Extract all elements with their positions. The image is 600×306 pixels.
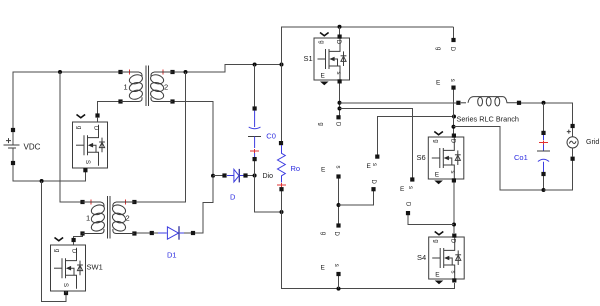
svg-text:D: D	[449, 47, 455, 52]
wire bridge left column top	[282, 27, 454, 65]
capacitor C0	[248, 106, 276, 161]
svg-text:D: D	[335, 122, 341, 127]
node mid-leg midpoint junction	[337, 203, 341, 207]
wire RLC feed line	[340, 102, 459, 104]
svg-text:C0: C0	[266, 132, 276, 141]
transformer T2	[80, 196, 136, 239]
wire Co1 bottom lead to return	[543, 174, 545, 190]
mosfet M1	[73, 113, 108, 172]
node T1 secondary top junction	[184, 70, 188, 74]
node top-left of bridge column	[280, 63, 284, 67]
wire S2 source to midpoint node	[338, 177, 340, 226]
voltage source VDC	[4, 128, 41, 165]
mosfet S4	[417, 232, 464, 285]
inductor Series RLC Branch	[456, 97, 521, 124]
node Ro bottom junction	[280, 210, 284, 214]
svg-text:D: D	[333, 232, 339, 237]
wire Ro node down to bottom bus	[282, 212, 455, 289]
capacitor Co1	[514, 131, 550, 176]
wire Co1 top lead	[543, 103, 545, 133]
wire C0 bottom lead	[254, 159, 256, 176]
wire S2b source down to bottom bus	[338, 274, 340, 289]
wire midpoint to S3 drain port	[339, 189, 374, 205]
wire top bus to S1 drain	[339, 27, 341, 37]
svg-text:2: 2	[126, 214, 130, 223]
mosfet S2b port labels (hidden block, middle leg bottom)	[320, 223, 341, 276]
wire S7 source down right leg to S6 drain	[453, 88, 455, 135]
svg-text:1: 1	[86, 214, 90, 223]
wire node to diode D anode	[213, 175, 225, 177]
mosfet S2 port labels (hidden block, middle leg top)	[318, 115, 341, 178]
node mid-leg tap to RLC feed	[338, 101, 342, 105]
svg-text:D: D	[370, 180, 376, 185]
node right leg tap at S3 source line	[452, 115, 456, 119]
mosfet S1	[304, 33, 350, 86]
wire bridge column to Ro top	[281, 65, 283, 144]
svg-text:1: 1	[124, 83, 128, 92]
svg-text:s: s	[449, 79, 455, 82]
svg-text:D1: D1	[167, 251, 177, 260]
wire C0 top lead	[254, 65, 256, 109]
mosfet S6	[417, 132, 464, 185]
node VDC- branch junction	[40, 179, 44, 183]
svg-text:Dio: Dio	[263, 173, 274, 180]
svg-text:S4: S4	[417, 253, 426, 262]
wire grid bottom to return line	[544, 159, 573, 190]
node right leg tap to return line	[452, 125, 456, 129]
svg-text:g: g	[318, 123, 324, 126]
node mid-leg tap to S5 source line	[338, 107, 342, 111]
svg-text:g: g	[320, 232, 326, 235]
svg-text:E: E	[321, 264, 326, 271]
wire S3 source up to right leg	[377, 117, 454, 157]
wire S6 source down to S4 drain	[453, 183, 455, 234]
wire T1 primary bottom to M1 drain	[98, 102, 121, 116]
wire C0 node down to Ro bottom node	[255, 176, 282, 213]
svg-text:D: D	[405, 202, 411, 207]
wire Ro bottom lead to junction	[281, 189, 283, 212]
wire T2 primary bottom to SW1 drain	[74, 234, 83, 241]
node C0 top tap	[253, 63, 257, 67]
svg-text:E: E	[367, 163, 372, 170]
wire diode D cathode to C0 bottom node	[246, 175, 255, 177]
AC source Grid	[567, 124, 600, 161]
wire return line to right	[454, 127, 544, 190]
diode D1	[150, 226, 195, 259]
svg-text:S6: S6	[417, 153, 426, 162]
svg-text:s: s	[407, 186, 413, 189]
svg-text:Grid: Grid	[586, 139, 599, 146]
transformer T1	[118, 66, 174, 107]
svg-text:s: s	[371, 163, 377, 166]
wire VDC+ to transformer T1 primary top	[13, 72, 121, 130]
svg-text:2: 2	[164, 83, 168, 92]
node S1 drain tap on top bus	[338, 25, 342, 29]
svg-text:SW1: SW1	[87, 263, 103, 272]
svg-text:s: s	[333, 264, 339, 267]
wire top bus down to S7 drain	[453, 27, 455, 40]
wire to S5 source port	[340, 109, 413, 180]
svg-text:D: D	[230, 192, 236, 201]
svg-text:E: E	[321, 167, 326, 174]
mosfet S7 port labels (hidden block, right leg top)	[435, 38, 456, 90]
node diode D anode junction	[211, 174, 215, 178]
svg-text:g: g	[435, 47, 441, 50]
mosfet S5 port labels (hidden block, flipped)	[400, 177, 414, 215]
svg-text:Ro: Ro	[291, 164, 301, 173]
svg-text:s: s	[335, 166, 341, 169]
svg-text:Co1: Co1	[514, 153, 528, 162]
wire VDC- to M1 source	[13, 163, 85, 181]
wire T2 secondary bottom to D1 anode	[134, 232, 151, 234]
wire S1 source down to S2 drain	[339, 82, 341, 118]
node bottom bus junction at S2 source	[337, 287, 341, 291]
wire T1 secondary bottom down to diode D node	[173, 102, 214, 177]
wire staircase node down to D1 cathode	[193, 177, 213, 234]
wire junction down to T2 primary top	[60, 72, 83, 202]
mosfet S3 port labels (hidden block, flipped)	[367, 155, 380, 192]
svg-text:VDC: VDC	[24, 143, 41, 152]
wire junction down to T2 secondary top	[134, 72, 185, 202]
node Co1 top tap	[542, 101, 546, 105]
node right leg lower junction	[452, 223, 456, 227]
node C0 bottom / diode D cathode junction	[253, 174, 257, 178]
node Co1 bottom junction	[542, 188, 546, 192]
svg-text:E: E	[436, 79, 441, 86]
svg-text:E: E	[400, 186, 405, 193]
mosfet SW1	[51, 238, 103, 296]
wire junction down to SW1 source	[42, 181, 66, 302]
svg-text:Series RLC Branch: Series RLC Branch	[457, 115, 519, 124]
node VDC+ branch junction	[58, 70, 62, 74]
diode D	[222, 169, 247, 201]
wire T1 secondary top to node line	[173, 65, 282, 73]
wire inductor right lead to grid top	[519, 103, 573, 126]
resistor Ro	[277, 141, 300, 191]
wire S5 drain down to lower junction	[408, 213, 454, 225]
svg-text:S1: S1	[304, 54, 313, 63]
